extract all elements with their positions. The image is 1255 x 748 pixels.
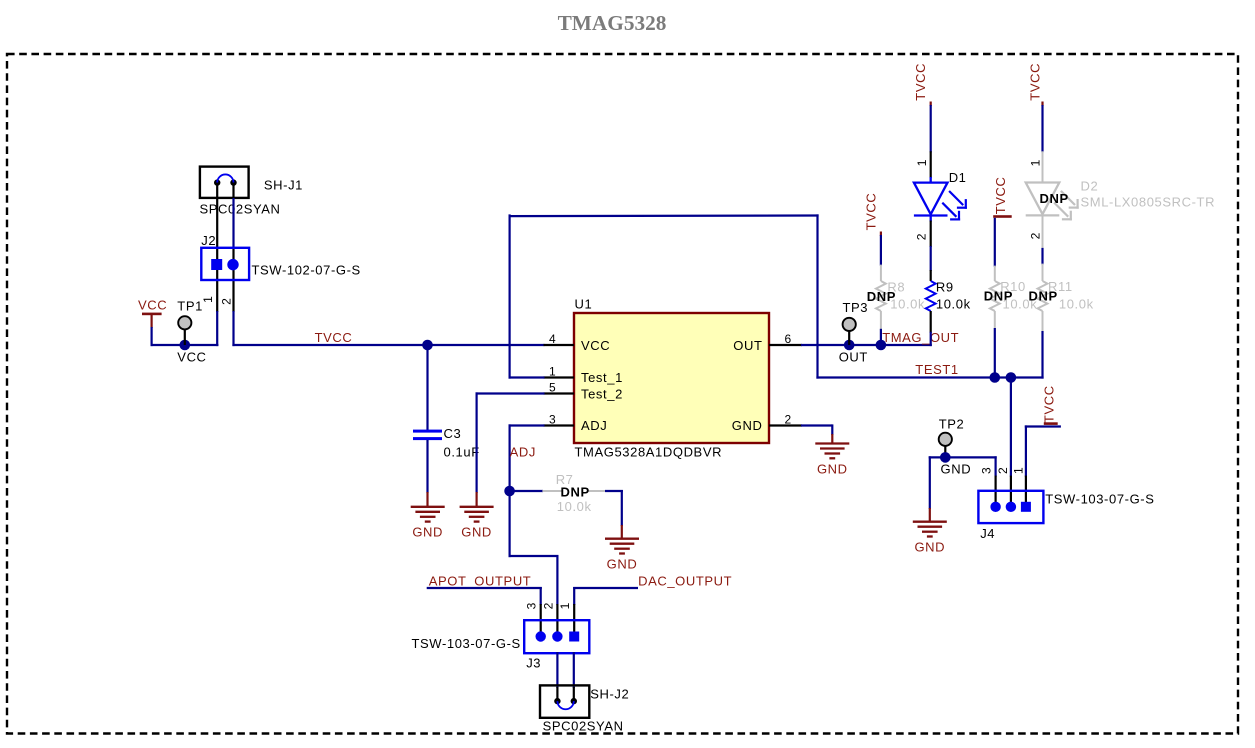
svg-text:3: 3 [980,467,994,474]
wire J3 to SH-J2 left [556,652,558,688]
svg-text:J2: J2 [201,233,216,248]
ground GND (TP2) [913,522,947,537]
svg-text:D2: D2 [1081,179,1099,194]
capacitor C3 [413,430,442,433]
wire VCC vertical [151,327,153,346]
wire VCC net [151,344,219,346]
pin 3 ADJ [544,424,575,426]
svg-text:GND: GND [412,525,443,540]
test point TP2 [944,446,946,458]
svg-text:TVCC: TVCC [1027,63,1042,101]
svg-text:0.1uF: 0.1uF [444,445,480,460]
svg-text:SH-J2: SH-J2 [590,687,629,702]
test point TP1 [184,329,186,345]
wire to gnd symbol [929,456,931,509]
wire R9 to OUT [930,332,932,346]
pin 1 Test_1 [544,376,575,378]
wire C3 top [426,344,428,430]
wire ADJ from pin3 [509,424,545,426]
svg-text:APOT_OUTPUT: APOT_OUTPUT [429,574,532,589]
wire J3 to SH-J2 right [573,652,575,688]
pin SH-J1/J2 pin1 line [216,183,218,312]
wire GND to J4 pin3 [994,456,996,476]
svg-text:2: 2 [542,602,556,609]
svg-text:R9: R9 [936,280,954,295]
svg-text:10.0k: 10.0k [557,499,592,514]
svg-text:TMAG_OUT: TMAG_OUT [882,330,959,345]
wire to R7 [510,490,543,492]
wire to J3 pin1 [573,587,575,605]
resistor R7 (DNP) body hidden behind DNP text [588,490,606,492]
pin R11 top [1042,264,1044,281]
wire ADJ vertical [509,424,511,557]
svg-text:TP3: TP3 [843,300,869,315]
svg-text:1: 1 [549,365,556,379]
svg-text:TSW-102-07-G-S: TSW-102-07-G-S [252,263,361,278]
wire J2 pin2 to TVCC [232,311,234,346]
svg-text:J3: J3 [526,656,541,671]
svg-text:DNP: DNP [1040,191,1069,206]
wire GND net (TP2) [929,456,997,458]
pin 2 GND [769,424,802,426]
svg-text:GND: GND [461,525,492,540]
ground GND (U1) [815,444,849,459]
junction GND/TP2 [940,452,951,463]
svg-text:1: 1 [1029,159,1043,166]
svg-text:2: 2 [785,413,792,427]
connector J3 [524,620,589,653]
svg-text:DNP: DNP [561,485,590,500]
connector J4 [978,491,1043,523]
svg-text:SPC02SYAN: SPC02SYAN [200,202,281,217]
svg-text:SML-LX0805SRC-TR: SML-LX0805SRC-TR [1081,195,1216,210]
svg-text:SPC02SYAN: SPC02SYAN [543,719,624,734]
junction OUT/TP3 [844,340,855,351]
pin R10 top [994,266,996,281]
wire TVCC to R10 [994,218,996,267]
wire R7 gnd drop [621,490,623,526]
svg-text:TSW-103-07-G-S: TSW-103-07-G-S [412,636,521,651]
svg-text:ADJ: ADJ [510,445,536,460]
svg-text:10.0k: 10.0k [890,297,925,312]
resistor R9 [926,281,936,311]
svg-text:C3: C3 [444,426,462,441]
svg-text:TP1: TP1 [177,299,203,314]
svg-text:3: 3 [549,413,556,427]
wire to Test_1 pin [509,376,545,378]
pin J4 pin1 [1025,476,1027,507]
LED D2 (DNP) [1026,183,1060,216]
pin 6 OUT [769,344,802,346]
svg-text:1: 1 [1011,467,1025,474]
svg-text:ADJ: ADJ [581,418,607,433]
wire ADJ jog [509,555,559,557]
pin J4 pin3 [994,476,996,507]
pin R8 bottom [880,311,882,330]
wire R11 to TEST1 [1041,331,1043,379]
wire U1 GND drop [831,424,833,435]
wire APOT_OUTPUT [427,587,542,589]
pin J3 pin2 [556,604,558,636]
wire TEST1 net [816,376,1043,378]
shunt jumper SH-J1 [200,167,249,198]
svg-text:OUT: OUT [733,338,762,353]
svg-text:DNP: DNP [1029,289,1058,304]
svg-text:GND: GND [732,418,763,433]
svg-text:5: 5 [549,381,556,395]
test point TP3 [848,331,850,345]
svg-text:J4: J4 [980,526,995,541]
svg-text:GND: GND [914,540,945,555]
svg-text:SH-J1: SH-J1 [264,178,303,193]
wire to J3 pin3 [540,587,542,605]
wire TEST1 right vertical [816,214,818,378]
svg-text:TMAG5328: TMAG5328 [558,11,667,35]
wire TVCC J4 [1025,425,1061,427]
junction TVCC/C3 [422,340,433,351]
wire D2 to R11 [1041,248,1043,265]
svg-text:TP2: TP2 [939,417,965,432]
svg-text:GND: GND [817,461,848,476]
resistor R8 (DNP) [876,281,886,311]
svg-text:U1: U1 [575,297,593,312]
shunt jumper SH-J2 [540,685,589,717]
wire TVCC to J4 pin1 [1025,425,1027,476]
svg-text:TVCC: TVCC [863,193,878,231]
svg-text:2: 2 [1029,232,1043,239]
resistor R10 (DNP) [990,281,1000,311]
svg-text:3: 3 [525,602,539,609]
pin D2 pin2 [1042,215,1044,249]
svg-text:GND: GND [941,462,972,477]
wire TEST1 to J4 pin2 [1010,376,1012,476]
wire TVCC to D2 [1041,105,1043,152]
ground GND (C3) [411,507,445,522]
pin R9 bottom [930,311,932,333]
svg-text:TVCC: TVCC [913,63,928,101]
junction TEST1/R10 [990,372,1001,383]
svg-text:2: 2 [915,233,929,240]
pin R9 top [930,270,932,281]
wire R7 to gnd [605,490,623,492]
svg-text:10.0k: 10.0k [1059,297,1094,312]
wire J2 pin1 to VCC [216,311,218,346]
svg-text:TSW-103-07-G-S: TSW-103-07-G-S [1045,492,1154,507]
svg-text:10.0k: 10.0k [936,297,971,312]
svg-text:2: 2 [220,298,234,305]
wire TVCC net [232,344,544,346]
svg-text:TVCC: TVCC [993,177,1008,215]
svg-text:6: 6 [785,332,792,346]
junction VCC/TP1 [180,340,191,351]
svg-text:GND: GND [607,557,638,572]
wire TEST1 left vertical [509,214,511,378]
wire D1 to R9 [930,246,932,271]
pin J3 pin1 [573,604,575,636]
pin D1 pin2 [930,221,932,248]
wire ADJ to J3 pin2 [556,555,558,605]
wire jumper to J2 [232,198,234,249]
svg-text:TVCC: TVCC [1041,385,1056,423]
pin R8 top [880,265,882,281]
junction OUT/R8 [876,340,887,351]
wire DAC_OUTPUT [573,587,638,589]
pin SH-J2 lines [556,687,558,701]
svg-text:OUT: OUT [839,350,868,365]
wire Test_2 drop [476,392,478,493]
svg-text:VCC: VCC [581,338,610,353]
pin R10 bottom [994,311,996,329]
ground GND (Test_2) [460,507,494,522]
svg-text:4: 4 [549,332,556,346]
pin J4 pin2 [1010,476,1012,507]
svg-text:VCC: VCC [177,350,206,365]
pin SH-J1/J2 pin2 line [232,183,234,199]
pin D1 pin1 [930,151,932,178]
svg-text:1: 1 [558,602,572,609]
svg-text:VCC: VCC [138,298,167,313]
svg-text:DAC_OUTPUT: DAC_OUTPUT [638,574,732,589]
junction ADJ/R7 [504,486,515,497]
svg-text:1: 1 [201,296,215,303]
pin J2 pin2 lower [232,248,234,312]
connector J2 [201,248,249,280]
svg-text:TMAG5328A1DQDBVR: TMAG5328A1DQDBVR [575,445,723,460]
pin J3 pin3 [540,604,542,636]
wire TVCC to D1 [930,105,932,152]
wire TEST1 top [510,214,819,217]
junction TEST1/J4 [1006,372,1017,383]
resistor R11 (DNP) [1038,281,1048,311]
wire OUT net [801,344,932,346]
pin D2 pin1 [1042,151,1044,182]
pin 5 Test_2 [544,392,575,394]
wire Test_2 [476,392,545,394]
wire R8 to OUT [880,329,882,345]
pin 4 VCC [544,344,575,346]
wire R10 to TEST1 [994,328,996,378]
ground GND (R7) [605,539,639,554]
svg-text:TVCC: TVCC [315,330,353,345]
pin R11 bottom [1042,311,1044,332]
svg-text:D1: D1 [949,170,967,185]
LED D1 [914,183,948,216]
svg-text:TEST1: TEST1 [915,362,958,377]
svg-text:1: 1 [915,159,929,166]
svg-text:Test_2: Test_2 [581,386,623,401]
wire U1 GND [801,424,832,426]
svg-text:2: 2 [996,467,1010,474]
svg-text:Test_1: Test_1 [581,370,623,385]
wire C3 bottom [426,440,428,493]
wire TVCC to R8 [880,235,882,266]
